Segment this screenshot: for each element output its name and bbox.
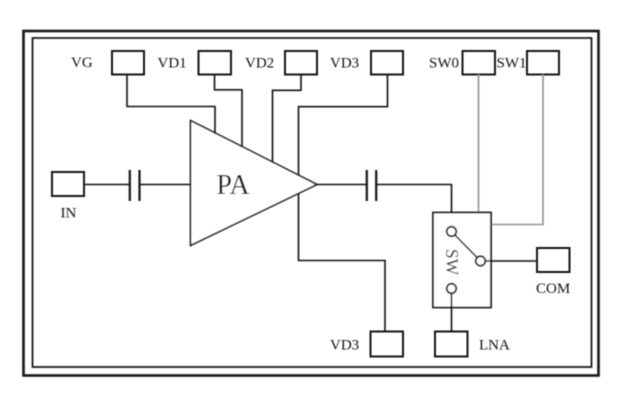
wire VD1 to PA — [215, 75, 243, 148]
svg-text:IN: IN — [61, 206, 77, 222]
outer border frame — [24, 31, 599, 376]
svg-text:SW: SW — [442, 249, 462, 276]
wire C2 to SW box — [377, 185, 452, 232]
wire VG to PA — [127, 75, 215, 135]
wire SW0 to SW box (gray) — [478, 75, 480, 213]
svg-text:COM: COM — [536, 281, 570, 297]
capacitor C2 — [367, 170, 376, 201]
switch contact node 3 — [447, 284, 457, 294]
svg-text:VG: VG — [71, 55, 93, 71]
switch contact node 1 — [447, 227, 457, 237]
svg-text:LNA: LNA — [479, 338, 510, 354]
pad LNA — [435, 332, 468, 357]
wire SW to LNA pad — [451, 289, 453, 332]
wire VD2 to PA — [273, 75, 302, 164]
svg-text:SW0: SW0 — [429, 56, 459, 72]
pad VD2 — [285, 51, 317, 75]
svg-text:VD3: VD3 — [330, 338, 359, 354]
pad IN — [52, 172, 84, 196]
pad VD1 — [199, 51, 232, 75]
pad SW1 — [527, 51, 559, 75]
svg-text:SW1: SW1 — [497, 56, 527, 72]
switch contact node 2 — [476, 256, 486, 266]
wire IN to C1 — [84, 184, 129, 186]
svg-text:VD1: VD1 — [158, 56, 187, 72]
capacitor C1 — [130, 170, 140, 201]
svg-text:PA: PA — [216, 170, 250, 201]
pad VD3 top — [371, 51, 403, 75]
op-amp PA triangle — [191, 121, 318, 246]
pad SW0 — [463, 51, 496, 75]
switch box SW — [433, 213, 491, 308]
svg-text:VD2: VD2 — [245, 56, 274, 72]
inner border frame — [33, 38, 592, 367]
pad VG — [112, 51, 144, 75]
label SW rotated — [442, 249, 462, 276]
wire PA output to C2 — [317, 184, 366, 186]
svg-text:VD3: VD3 — [330, 56, 359, 72]
wire SW to COM pad — [481, 260, 538, 262]
pad VD3 bottom — [371, 332, 404, 357]
wire switch arm — [452, 232, 481, 262]
wire C1 to PA input — [140, 184, 191, 186]
pad COM — [537, 248, 570, 272]
wire SW1 to SW box (gray) — [491, 75, 543, 225]
wire VD3 top pad to bottom VD3 pad (passes behind PA) — [299, 75, 388, 332]
